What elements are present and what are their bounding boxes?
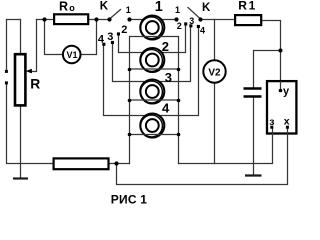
svg-text:4: 4 — [98, 34, 105, 46]
svg-text:R1: R1 — [238, 0, 257, 12]
svg-text:2: 2 — [162, 39, 169, 54]
svg-text:1: 1 — [126, 5, 131, 15]
svg-text:2: 2 — [121, 24, 127, 36]
svg-text:3: 3 — [107, 31, 113, 43]
svg-text:K: K — [202, 2, 211, 14]
svg-text:o: o — [69, 3, 75, 13]
svg-text:4: 4 — [162, 100, 170, 115]
svg-text:з: з — [269, 116, 274, 128]
svg-text:R: R — [59, 0, 68, 13]
svg-text:1: 1 — [175, 5, 180, 15]
svg-text:1: 1 — [155, 0, 163, 15]
svg-text:V2: V2 — [208, 67, 221, 78]
svg-text:y: y — [283, 86, 290, 98]
svg-text:2: 2 — [177, 21, 182, 31]
svg-text:K: K — [100, 0, 109, 12]
svg-text:3: 3 — [189, 16, 194, 26]
svg-text:3: 3 — [165, 70, 172, 85]
svg-text:R: R — [30, 76, 40, 91]
svg-text:x: x — [284, 115, 290, 127]
svg-text:РИС 1: РИС 1 — [111, 192, 147, 206]
svg-text:V1: V1 — [66, 50, 77, 60]
svg-text:4: 4 — [200, 25, 205, 35]
